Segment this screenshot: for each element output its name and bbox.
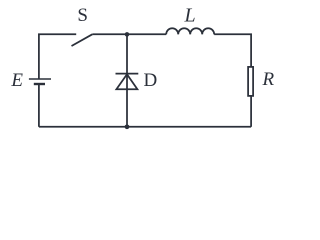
wire: left vertical (bottom) (38, 84, 40, 127)
svg-text:L: L (183, 5, 195, 27)
wire: switch to inductor through node A (92, 33, 166, 35)
wire: bottom rail (39, 126, 251, 128)
wire: diode branch vertical (126, 34, 128, 127)
inductor L (166, 28, 214, 34)
diode D cathode bar (116, 73, 139, 75)
wire: left vertical (top) + top rail to switch gap (39, 34, 76, 79)
svg-text:D: D (144, 70, 158, 91)
switch S blade (72, 34, 93, 46)
battery E short plate (34, 83, 45, 85)
diode D triangle (116, 74, 137, 89)
wire: resistor to bottom-right corner (250, 97, 252, 127)
battery E long plate (29, 78, 51, 80)
wire: inductor to top-right corner, down to resistor (214, 34, 251, 66)
svg-text:S: S (77, 5, 88, 26)
node A: top junction dot (125, 32, 130, 37)
node B: bottom junction dot (125, 124, 130, 129)
svg-text:E: E (10, 70, 23, 91)
svg-text:R: R (261, 69, 274, 90)
resistor R body (248, 67, 253, 96)
